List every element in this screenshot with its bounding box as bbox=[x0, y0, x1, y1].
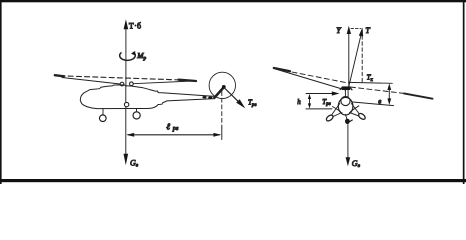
svg-text:Трв: Трв bbox=[322, 98, 330, 107]
fuselage outline bbox=[80, 85, 214, 109]
right blade bbox=[133, 81, 195, 84]
rotor hub block bbox=[342, 86, 350, 90]
frame left border bbox=[0, 0, 2, 184]
svg-text:Тк: Тк bbox=[367, 74, 374, 83]
thrust arrow T head bbox=[124, 19, 129, 29]
dim v arrowhead up bbox=[387, 83, 391, 90]
rotor tip-path dashed line bbox=[60, 76, 182, 80]
boom dot 2 bbox=[208, 97, 212, 99]
dashed drop line from tail hub bbox=[221, 92, 223, 129]
tail pylon bbox=[215, 87, 224, 97]
dim v arrowhead down bbox=[387, 98, 391, 105]
front wheel strut bbox=[102, 109, 104, 115]
CG circle bbox=[124, 102, 128, 106]
mast inside cabin bbox=[125, 86, 127, 102]
thrust arrow T head bbox=[359, 28, 363, 37]
torque curl Mp arrowhead bbox=[131, 51, 135, 56]
tail thrust arrow Tpv shaft bbox=[225, 88, 240, 103]
weight arrowhead left bbox=[124, 154, 129, 166]
lift arrow Y shaft bbox=[348, 34, 350, 89]
frame right border bbox=[463, 0, 465, 184]
left wheel bbox=[325, 114, 334, 122]
right rotor left blade bbox=[276, 69, 346, 90]
right wheel bbox=[358, 112, 367, 120]
dashed vertical projection bbox=[361, 30, 363, 84]
svg-text:Y: Y bbox=[336, 26, 342, 35]
fuselage front outline bbox=[338, 97, 353, 115]
dim h arrowhead up bbox=[308, 94, 311, 99]
tail bumper blob bbox=[345, 119, 350, 124]
tail thrust arrow Tpv front head bbox=[332, 91, 340, 95]
flapping hinge right bbox=[130, 82, 134, 86]
frame bottom bar bbox=[0, 179, 466, 182]
dashed top connector bbox=[351, 28, 361, 30]
left blade bbox=[62, 78, 120, 85]
cockpit circle bbox=[341, 96, 350, 105]
weight line right bbox=[347, 125, 349, 159]
front wheel bbox=[100, 115, 107, 122]
tail thrust arrow Tpv front shaft bbox=[306, 93, 334, 95]
h lower reference line bbox=[306, 108, 332, 110]
flapping hinge left bbox=[120, 82, 124, 86]
torque curl Mp bbox=[120, 53, 136, 61]
mast front view bbox=[344, 90, 346, 97]
rotor tip solid segment right bbox=[179, 80, 197, 81]
tail rotor hub bbox=[222, 85, 226, 89]
tail rotor circle bbox=[209, 72, 235, 98]
tail thrust arrow Tpv head bbox=[236, 99, 245, 108]
gear strut right outer bbox=[351, 104, 360, 116]
dim v shaft bbox=[388, 88, 390, 101]
dimension arrowhead right bbox=[213, 133, 221, 137]
svg-text:T: T bbox=[365, 26, 370, 35]
dimension arrowhead left bbox=[126, 133, 134, 137]
tail bumper side mark bbox=[350, 120, 353, 122]
weight arrowhead right bbox=[346, 157, 351, 166]
lift arrow Y head bbox=[347, 26, 351, 34]
thrust arrow T shaft bbox=[348, 34, 361, 90]
dim h shaft bbox=[309, 96, 311, 108]
gear strut right mid bbox=[351, 106, 359, 112]
dim h arrowhead down bbox=[308, 103, 311, 108]
svg-text:Gв: Gв bbox=[352, 159, 361, 169]
hub side pin right bbox=[350, 88, 352, 90]
svg-text:ℓ: ℓ bbox=[166, 122, 170, 132]
hub side pin left bbox=[340, 88, 342, 90]
hub level reference line bbox=[349, 81, 393, 84]
boom dot 1 bbox=[202, 96, 206, 98]
svg-text:Т·б: Т·б bbox=[129, 21, 142, 30]
rear wheel bbox=[133, 112, 140, 119]
gear strut right inner bbox=[350, 113, 360, 117]
right rotor tip solid segment left bbox=[274, 68, 290, 71]
lower reference line bbox=[352, 102, 394, 106]
gear strut left outer bbox=[331, 104, 340, 117]
svg-text:в: в bbox=[378, 98, 381, 106]
svg-text:Gв: Gв bbox=[130, 158, 139, 168]
right rotor tip-path dashed left bbox=[276, 69, 346, 83]
rotor tip solid segment left bbox=[55, 75, 64, 76]
dimension line l_pv bbox=[128, 134, 220, 136]
right rotor blade dashed right bbox=[351, 87, 405, 93]
svg-text:Трв: Трв bbox=[248, 99, 257, 108]
right rotor tip solid segment right bbox=[404, 93, 433, 98]
tail skid bbox=[346, 115, 348, 120]
svg-text:Мр: Мр bbox=[136, 51, 146, 61]
rear wheel strut bbox=[136, 109, 138, 112]
weight line left bbox=[125, 107, 127, 154]
svg-text:h: h bbox=[297, 98, 301, 106]
frame top border bbox=[0, 0, 466, 2]
thrust arrow T shaft bbox=[125, 29, 127, 86]
gear strut left mid bbox=[333, 107, 341, 112]
gear strut left inner bbox=[332, 113, 343, 118]
drop line solid tick bbox=[221, 128, 223, 140]
svg-text:рв: рв bbox=[172, 126, 179, 132]
